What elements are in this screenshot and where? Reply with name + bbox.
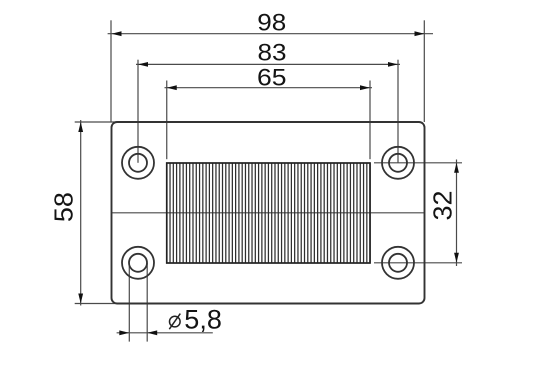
svg-text:83: 83 xyxy=(258,40,287,67)
svg-text:98: 98 xyxy=(257,10,286,37)
svg-text:5,8: 5,8 xyxy=(184,304,222,334)
svg-text:65: 65 xyxy=(257,65,287,92)
svg-text:58: 58 xyxy=(48,192,78,222)
svg-text:32: 32 xyxy=(428,191,458,221)
